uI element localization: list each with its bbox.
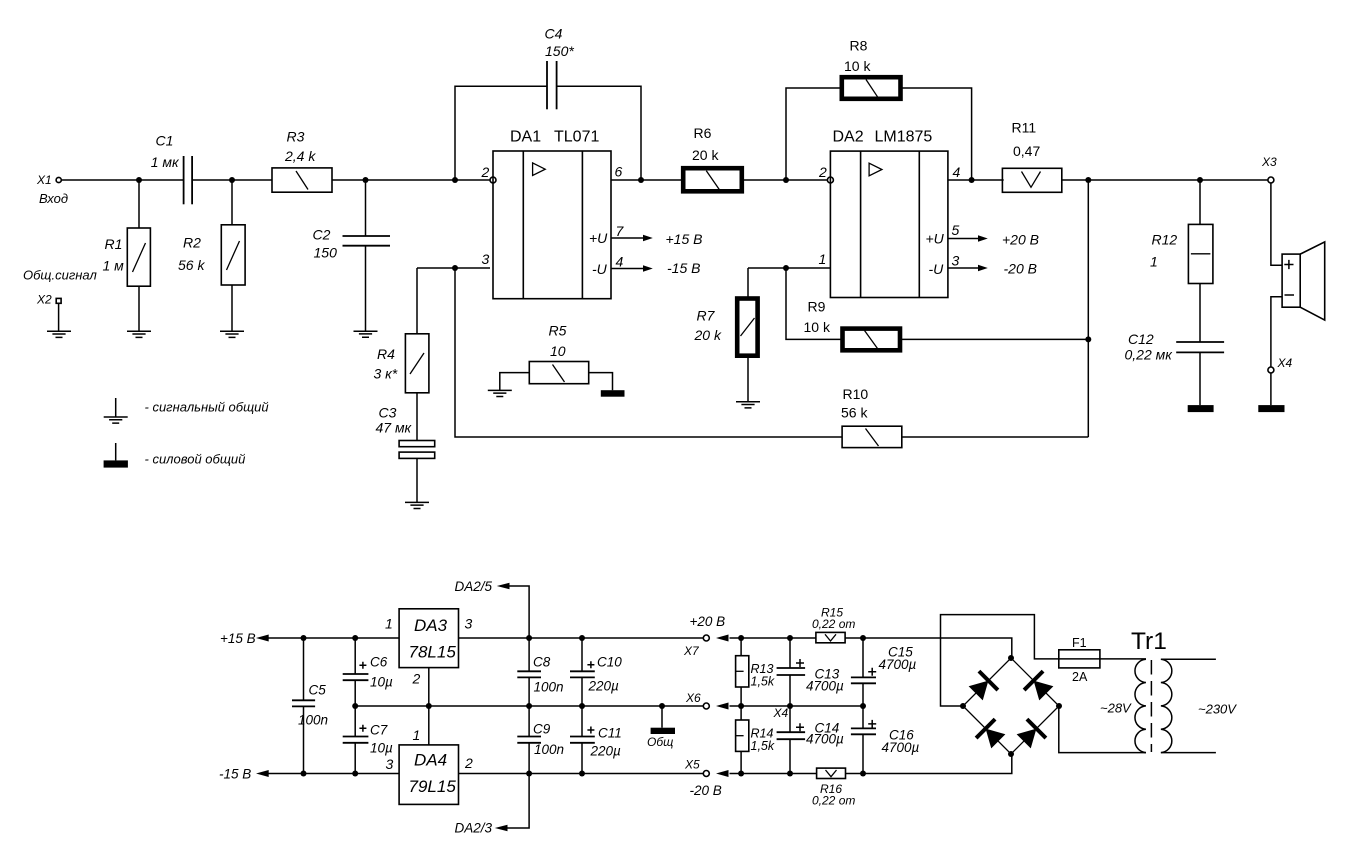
svg-text:150: 150 xyxy=(314,245,338,261)
wire mid rail xyxy=(355,705,863,707)
node bridge left xyxy=(960,703,966,709)
svg-text:20 k: 20 k xyxy=(694,327,722,343)
node C8 top xyxy=(526,635,532,641)
ground (signal) under R2 xyxy=(220,331,244,337)
svg-text:C4: C4 xyxy=(545,26,563,42)
svg-text:-20 В: -20 В xyxy=(1004,261,1037,277)
capacitor C2 xyxy=(313,227,391,261)
svg-text:5: 5 xyxy=(952,222,960,238)
legend: power ground symbol xyxy=(104,443,246,468)
wire +15V rail xyxy=(269,637,704,639)
resistor R12 xyxy=(1150,224,1213,283)
node R13 top xyxy=(738,635,744,641)
op-amp DA2 xyxy=(830,129,948,298)
svg-text:2: 2 xyxy=(412,671,421,687)
legend: signal ground symbol xyxy=(104,398,269,423)
node DA3 pin2 / mid rail xyxy=(426,703,432,709)
terminal X7 xyxy=(683,614,725,658)
pin 5 DA2 (+U) xyxy=(926,222,1039,248)
svg-text:56 k: 56 k xyxy=(178,257,205,273)
wire C6/C7 column xyxy=(354,638,356,774)
diode VD4 (bottom-right) xyxy=(1014,719,1046,751)
pin 2 DA1 xyxy=(481,164,497,183)
wire R1 column xyxy=(138,180,140,331)
svg-text:DA2/3: DA2/3 xyxy=(455,821,493,836)
arrow into X6 xyxy=(716,703,729,710)
wire R9 left branch xyxy=(786,268,841,339)
svg-text:+15 В: +15 В xyxy=(666,231,703,247)
wire X5 arrow to rail xyxy=(730,773,817,775)
svg-text:C3: C3 xyxy=(379,405,397,421)
svg-text:4700µ: 4700µ xyxy=(882,740,920,755)
svg-text:C11: C11 xyxy=(598,726,622,741)
wire R10 right branch xyxy=(902,436,1089,438)
svg-text:C8: C8 xyxy=(533,655,551,670)
svg-text:4: 4 xyxy=(953,164,961,180)
capacitor C3 xyxy=(376,405,435,459)
capacitor C12 xyxy=(1125,331,1225,363)
svg-text:78L15: 78L15 xyxy=(409,643,457,662)
svg-text:1: 1 xyxy=(819,251,827,267)
arrow into X7 xyxy=(716,635,729,642)
wire C4 right branch xyxy=(557,86,641,180)
wire X1 to C1 xyxy=(62,179,184,181)
node C5 top xyxy=(301,635,307,641)
svg-text:1: 1 xyxy=(413,727,421,743)
svg-text:2: 2 xyxy=(818,164,827,180)
resistor R15 xyxy=(812,606,855,643)
svg-text:100n: 100n xyxy=(298,713,328,728)
svg-text:C10: C10 xyxy=(597,655,622,670)
svg-text:56 k: 56 k xyxy=(841,405,868,421)
resistor R11 xyxy=(1002,120,1061,193)
svg-text:2A: 2A xyxy=(1072,670,1088,684)
terminal X5 xyxy=(684,758,722,799)
svg-text:3: 3 xyxy=(952,253,960,269)
svg-text:- силовой общий: - силовой общий xyxy=(145,452,246,467)
svg-text:79L15: 79L15 xyxy=(409,777,457,796)
resistor R3 xyxy=(272,129,332,193)
bridge diamond VD1-VD4 xyxy=(960,655,1062,757)
capacitor C6 xyxy=(343,655,393,690)
arrow -15V xyxy=(256,770,269,777)
wire rail R15 to bridge top xyxy=(845,638,1012,658)
node C14 bottom xyxy=(787,771,793,777)
pin 4 DA1 (-U) xyxy=(592,254,700,278)
node C6 top xyxy=(352,635,358,641)
svg-text:20 k: 20 k xyxy=(692,147,719,163)
resistor R10 xyxy=(841,386,902,448)
capacitor C16 xyxy=(851,720,920,755)
svg-text:X3: X3 xyxy=(1261,155,1277,169)
pin 3 DA2 (-U) xyxy=(929,253,1037,278)
capacitor C1 xyxy=(151,133,192,205)
ground (power) under C12 xyxy=(1188,405,1214,412)
svg-text:1: 1 xyxy=(385,616,393,632)
wire X3 to speaker plus xyxy=(1271,183,1282,265)
node C10 top xyxy=(579,635,585,641)
wire DA1 pin3 xyxy=(417,267,490,269)
capacitor C15 xyxy=(851,645,917,684)
wire X7 arrow to rail xyxy=(730,637,816,639)
wire C4 left branch xyxy=(455,86,547,180)
resistor R1 xyxy=(103,228,151,286)
svg-text:1,5k: 1,5k xyxy=(751,739,775,753)
svg-text:150*: 150* xyxy=(545,43,574,59)
wire R5 left xyxy=(500,373,530,391)
wire R2 column xyxy=(231,180,233,331)
node C7 bottom xyxy=(352,771,358,777)
terminal X1 xyxy=(36,173,68,206)
node C11 bottom xyxy=(579,771,585,777)
svg-text:F1: F1 xyxy=(1072,636,1087,650)
node R13/R14 mid xyxy=(738,703,744,709)
svg-text:DA4: DA4 xyxy=(414,751,447,770)
wire C2 column xyxy=(365,180,367,331)
wire DA4 pin1 xyxy=(428,706,430,745)
svg-text:Общ.сигнал: Общ.сигнал xyxy=(23,268,97,283)
node Obshch tap xyxy=(659,703,665,709)
resistor R16 xyxy=(812,768,855,807)
svg-text:X4: X4 xyxy=(773,706,789,720)
terminal X6 xyxy=(685,691,709,709)
Tr1 core xyxy=(1150,660,1152,752)
svg-text:DA2/5: DA2/5 xyxy=(455,579,493,594)
svg-text:3: 3 xyxy=(482,251,490,267)
node E (DA1 out / C4) xyxy=(638,177,644,183)
svg-text:~28V: ~28V xyxy=(1100,701,1132,716)
wire DA2/5 tap xyxy=(509,586,529,638)
wire R8 left branch xyxy=(786,88,841,180)
capacitor C13 xyxy=(777,659,844,694)
node L (R12 tap) xyxy=(1197,177,1203,183)
svg-text:47 мк: 47 мк xyxy=(376,420,413,436)
svg-text:R7: R7 xyxy=(697,308,716,324)
svg-text:R1: R1 xyxy=(105,236,123,252)
regulator DA4 79L15 xyxy=(386,727,474,804)
svg-text:X1: X1 xyxy=(36,173,52,187)
svg-text:Вход: Вход xyxy=(39,191,68,206)
wire pin3 node down to R10 run xyxy=(455,268,842,437)
arrow +15V xyxy=(256,635,269,642)
wire C13/C14 column xyxy=(789,638,791,774)
diode VD2 (top-right) xyxy=(1024,671,1056,703)
node X4 mid xyxy=(787,703,793,709)
resistor R6 xyxy=(683,125,742,191)
resistor R2 xyxy=(178,225,245,285)
svg-text:0,22 om: 0,22 om xyxy=(812,794,855,808)
wire R7 column xyxy=(747,268,749,402)
diode VD1 (left-top) xyxy=(966,671,998,703)
fuse F1 xyxy=(1059,636,1146,684)
svg-text:2,4 k: 2,4 k xyxy=(284,148,316,164)
svg-text:10µ: 10µ xyxy=(370,675,393,690)
svg-text:100n: 100n xyxy=(534,742,564,757)
wire DA3 pin2 xyxy=(428,668,430,706)
svg-text:3 к*: 3 к* xyxy=(374,366,398,382)
svg-text:C1: C1 xyxy=(156,133,174,149)
pin 2 DA2 xyxy=(818,164,833,183)
wire DA2/3 tap xyxy=(508,774,530,829)
svg-text:1 мк: 1 мк xyxy=(151,154,180,170)
node C (C2 tap) xyxy=(363,177,369,183)
svg-text:10: 10 xyxy=(550,343,566,359)
node C9 bottom xyxy=(526,771,532,777)
svg-text:DA1: DA1 xyxy=(510,129,541,146)
wire R3 to DA1 pin2 xyxy=(332,179,490,181)
wire bridge right node to transformer bottom xyxy=(1059,706,1146,753)
node R14 bottom xyxy=(738,771,744,777)
node H (R8 right) xyxy=(969,177,975,183)
wire R12 column xyxy=(1199,180,1201,405)
svg-text:10 k: 10 k xyxy=(804,319,831,335)
wire primary top xyxy=(1161,658,1216,660)
svg-text:+20 В: +20 В xyxy=(1002,232,1039,248)
svg-text:220µ: 220µ xyxy=(590,744,622,759)
wire bridge left node to fuse loop xyxy=(941,615,1059,706)
arrow DA2/5 xyxy=(497,583,510,590)
svg-text:DA3: DA3 xyxy=(414,616,448,635)
svg-text:TL071: TL071 xyxy=(554,129,599,146)
svg-text:100n: 100n xyxy=(534,680,564,695)
wire R8 right branch xyxy=(902,88,972,180)
node C13 top xyxy=(787,635,793,641)
svg-text:C6: C6 xyxy=(370,655,388,670)
svg-text:4700µ: 4700µ xyxy=(806,679,844,694)
resistor R13 xyxy=(736,656,775,689)
capacitor C8 xyxy=(517,655,563,695)
svg-text:R11: R11 xyxy=(1012,120,1037,136)
ground (signal) under R7 xyxy=(736,402,760,408)
svg-text:X5: X5 xyxy=(684,758,700,772)
wire R6 to DA2 pin2 xyxy=(744,179,827,181)
terminal X2 xyxy=(23,268,97,307)
svg-text:LM1875: LM1875 xyxy=(875,129,933,146)
capacitor C14 xyxy=(777,721,844,747)
svg-text:+U: +U xyxy=(589,230,608,246)
svg-text:+15 В: +15 В xyxy=(220,631,256,646)
node bridge right xyxy=(1056,703,1062,709)
svg-text:-15 В: -15 В xyxy=(667,260,700,276)
wire speaker minus to X4 xyxy=(1271,297,1282,367)
svg-text:- сигнальный общий: - сигнальный общий xyxy=(145,400,269,415)
resistor R5 xyxy=(529,323,588,384)
transformer Tr1 xyxy=(1100,628,1237,753)
ground (power) under R5 right xyxy=(601,390,625,397)
svg-text:C2: C2 xyxy=(313,227,331,243)
wire rail R16 to bridge bottom xyxy=(846,754,1012,774)
wire R11 to X3 xyxy=(1062,179,1268,181)
node B (R2 tap) xyxy=(229,177,235,183)
node bridge top xyxy=(1008,655,1014,661)
wire C10/C11 column xyxy=(581,638,583,774)
svg-text:X7: X7 xyxy=(683,644,700,658)
svg-text:-U: -U xyxy=(929,261,945,277)
svg-text:R3: R3 xyxy=(287,129,305,145)
node C6/C7 mid xyxy=(352,703,358,709)
wire DA1 output xyxy=(611,179,681,181)
svg-text:X2: X2 xyxy=(36,293,52,307)
svg-text:+20 В: +20 В xyxy=(690,614,726,629)
resistor R4 xyxy=(374,334,429,393)
resistor R8 xyxy=(842,38,901,99)
svg-text:+U: +U xyxy=(926,231,945,247)
capacitor C11 xyxy=(570,726,622,759)
capacitor C7 xyxy=(343,723,393,756)
svg-text:R5: R5 xyxy=(549,323,567,339)
wire R9 right branch xyxy=(902,338,1089,340)
resistor R7 xyxy=(694,299,758,356)
Tr1 secondary winding ~28V xyxy=(1135,659,1146,752)
svg-text:3: 3 xyxy=(386,756,394,772)
svg-text:DA2: DA2 xyxy=(833,129,864,146)
node C16 bottom xyxy=(860,771,866,777)
node C15/C16 mid xyxy=(860,703,866,709)
capacitor C4 xyxy=(545,26,575,110)
svg-text:X6: X6 xyxy=(685,691,701,705)
resistor R9 xyxy=(804,299,901,351)
svg-text:1 м: 1 м xyxy=(103,258,125,274)
wire R13/R14 column xyxy=(740,638,742,774)
svg-text:-15 В: -15 В xyxy=(219,767,251,782)
capacitor C5 xyxy=(292,683,328,728)
svg-text:2: 2 xyxy=(481,164,490,180)
ground (signal) under X2 xyxy=(47,331,71,337)
wire DA2 pin1 xyxy=(748,267,830,269)
svg-text:0,22 om: 0,22 om xyxy=(812,617,855,631)
node bridge bottom xyxy=(1008,751,1014,757)
svg-text:10µ: 10µ xyxy=(370,741,393,756)
svg-text:0,22 мк: 0,22 мк xyxy=(1125,347,1174,363)
node F (pin3 / R10 tap) xyxy=(452,265,458,271)
terminal X4 xyxy=(1268,356,1293,373)
svg-text:~230V: ~230V xyxy=(1198,702,1237,717)
node C5 bottom xyxy=(301,771,307,777)
ground (signal) under R1 xyxy=(127,331,151,337)
node C8/C9 mid xyxy=(526,703,532,709)
node C10/C11 mid xyxy=(579,703,585,709)
wire R4 column xyxy=(416,268,418,502)
svg-text:X4: X4 xyxy=(1277,356,1293,370)
wire output feedback column xyxy=(1087,180,1089,437)
svg-text:-U: -U xyxy=(592,261,608,277)
svg-text:4700µ: 4700µ xyxy=(879,657,917,672)
wire primary bottom xyxy=(1161,752,1216,754)
svg-text:R4: R4 xyxy=(377,346,395,362)
wire C1 to R3 xyxy=(192,179,272,181)
svg-text:4: 4 xyxy=(616,254,624,270)
ground (power) Obshch xyxy=(647,728,675,749)
wire R5 right xyxy=(589,373,613,391)
Tr1 primary winding ~230V xyxy=(1161,659,1172,752)
ground (signal) under C2 xyxy=(354,331,378,337)
svg-text:C7: C7 xyxy=(370,723,388,738)
pin 7 DA1 (+U) xyxy=(589,223,702,247)
regulator DA3 78L15 xyxy=(385,609,473,687)
svg-text:4700µ: 4700µ xyxy=(806,732,844,747)
node A (R1 tap) xyxy=(136,177,142,183)
svg-text:R6: R6 xyxy=(694,125,712,141)
arrow into X5 xyxy=(716,770,729,777)
svg-text:C5: C5 xyxy=(309,683,327,698)
ground (signal) under R5 left xyxy=(488,390,512,396)
svg-text:C9: C9 xyxy=(533,722,551,737)
svg-text:R8: R8 xyxy=(850,38,868,54)
speaker BA1 xyxy=(1282,242,1325,320)
node I (R7/R9 tap) xyxy=(783,265,789,271)
op-amp DA1 xyxy=(493,129,611,299)
node K (output node) xyxy=(1085,177,1091,183)
svg-text:2: 2 xyxy=(464,755,473,771)
svg-text:R12: R12 xyxy=(1152,232,1178,248)
terminal X3 xyxy=(1261,155,1277,183)
svg-text:R9: R9 xyxy=(808,299,826,315)
arrow DA2/3 xyxy=(495,825,508,832)
wire DA2 output xyxy=(948,179,1004,181)
capacitor C10 xyxy=(570,655,622,694)
svg-text:1,5k: 1,5k xyxy=(751,675,775,689)
ground (signal) under C3 xyxy=(405,502,429,508)
wire Obshch ground xyxy=(661,706,663,728)
svg-text:R10: R10 xyxy=(843,386,869,402)
svg-text:3: 3 xyxy=(465,616,473,632)
svg-text:-20 В: -20 В xyxy=(690,783,722,798)
capacitor C9 xyxy=(517,722,564,758)
diode VD3 (bottom-left) xyxy=(976,719,1008,751)
ground (power) under X4 xyxy=(1258,405,1284,412)
svg-text:7: 7 xyxy=(616,223,625,239)
wire C15/C16 column xyxy=(862,638,864,774)
node G (R8 feedback tap) xyxy=(783,177,789,183)
svg-text:C12: C12 xyxy=(1128,331,1154,347)
svg-text:R2: R2 xyxy=(183,235,201,251)
resistor R14 xyxy=(736,720,775,753)
svg-text:1: 1 xyxy=(1150,254,1158,270)
svg-text:0,47: 0,47 xyxy=(1013,143,1040,159)
wire X2 to ground xyxy=(58,303,60,331)
wire X4 to ground xyxy=(1270,373,1272,405)
svg-text:220µ: 220µ xyxy=(588,679,620,694)
wire C5 column xyxy=(303,638,305,774)
svg-text:Tr1: Tr1 xyxy=(1131,628,1167,655)
node C15 top xyxy=(860,635,866,641)
node D (C4 feedback tap) xyxy=(452,177,458,183)
wire -15V rail xyxy=(269,773,704,775)
svg-text:6: 6 xyxy=(615,164,623,180)
svg-text:10 k: 10 k xyxy=(844,58,871,74)
node J (R9 to output column) xyxy=(1085,336,1091,342)
wire C8/C9 column xyxy=(528,638,530,774)
svg-text:Общ: Общ xyxy=(647,735,673,749)
